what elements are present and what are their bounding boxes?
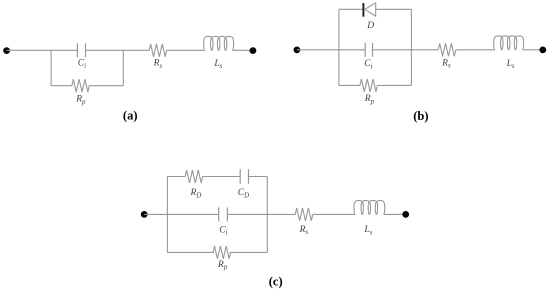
svg-text:(c): (c) bbox=[269, 275, 283, 289]
svg-text:(a): (a) bbox=[123, 108, 138, 122]
svg-text:D: D bbox=[366, 21, 374, 31]
svg-text:(b): (b) bbox=[413, 109, 428, 123]
